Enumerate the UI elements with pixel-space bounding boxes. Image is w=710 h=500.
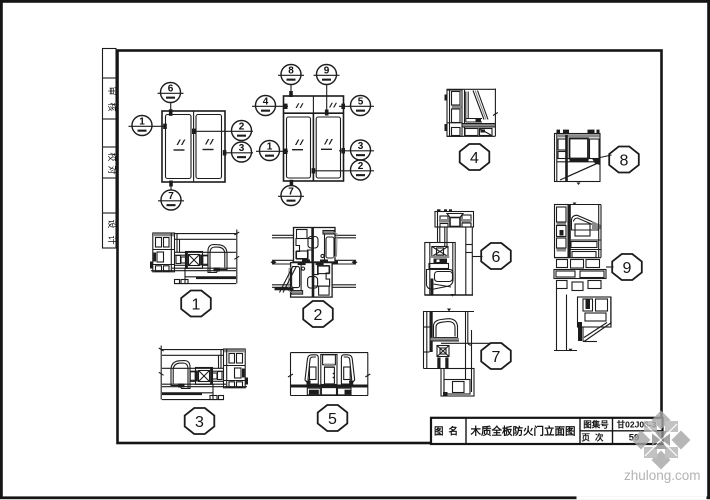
section detail 6	[425, 209, 474, 296]
door B transom glass marks	[296, 103, 304, 108]
section detail 2	[271, 228, 358, 298]
callout bubble 2 door A right	[192, 121, 253, 141]
lock body	[434, 259, 448, 264]
handle profile	[434, 319, 458, 338]
bottom cells	[465, 129, 478, 136]
door B right leaf	[316, 117, 340, 178]
door B transom mullion	[312, 96, 314, 113]
jamb block	[153, 233, 175, 272]
lower meeting stile block (rotated copy)	[289, 263, 333, 298]
section detail 3 (mirrored variant of 1)	[159, 346, 248, 400]
lower-right block	[578, 297, 612, 327]
callout bubble 1 door A left	[129, 116, 167, 136]
svg-text:2: 2	[239, 122, 245, 133]
left column	[423, 312, 425, 369]
door A left leaf	[166, 115, 192, 179]
right column	[465, 312, 467, 380]
svg-text:9: 9	[324, 66, 330, 77]
svg-text:7: 7	[168, 191, 174, 202]
jamb column	[447, 90, 462, 136]
svg-text:8: 8	[288, 66, 294, 77]
leaf top line	[175, 251, 237, 253]
dimension line	[494, 89, 496, 137]
callout bubble 1 door B left	[256, 141, 288, 161]
bolts	[437, 358, 440, 369]
door B transom sill lines	[284, 112, 344, 114]
svg-text:5: 5	[358, 97, 364, 108]
section detail 4	[445, 89, 498, 137]
section detail 1	[150, 230, 239, 284]
svg-text:4: 4	[470, 150, 479, 167]
callout bubble 7 door A bottom	[158, 181, 184, 211]
detail label octagon 6	[472, 243, 511, 269]
door A outer frame	[162, 111, 225, 182]
door elevation B	[284, 96, 344, 181]
heavy glass line	[565, 135, 568, 182]
section detail 5	[288, 353, 370, 396]
detail label octagon 5	[318, 405, 348, 431]
svg-text:核: 核	[107, 102, 118, 111]
drawing frame	[118, 51, 662, 444]
mid lock X-box	[437, 346, 449, 357]
svg-text:木质全板防火门立面图: 木质全板防火门立面图	[470, 425, 576, 438]
detail label octagon 3	[185, 408, 215, 434]
bottom band	[291, 385, 368, 388]
roof cap	[572, 215, 599, 230]
svg-text:5: 5	[328, 411, 337, 428]
lower block	[425, 243, 455, 296]
mid band	[571, 239, 601, 241]
svg-text:设: 设	[107, 219, 117, 228]
svg-text:7: 7	[288, 187, 294, 198]
head block	[435, 212, 474, 228]
svg-text:页次: 页次	[581, 433, 608, 443]
row under	[557, 260, 568, 268]
svg-text:3: 3	[195, 414, 204, 431]
legs	[437, 227, 439, 243]
door B meeting stile	[312, 113, 314, 181]
door elevation A	[162, 111, 225, 182]
left cells	[558, 139, 567, 150]
detail label octagon 9	[606, 254, 642, 280]
svg-text:图集号: 图集号	[583, 420, 609, 430]
section detail 9	[554, 203, 612, 352]
svg-text:校: 校	[107, 152, 118, 161]
door B left leaf	[287, 117, 311, 178]
leader 6	[170, 103, 172, 113]
svg-text:2: 2	[314, 307, 323, 324]
lower box	[424, 368, 475, 370]
svg-text:3: 3	[239, 143, 245, 154]
right column	[598, 205, 600, 258]
callout bubble 8 door B top	[278, 65, 304, 98]
glazing bead	[464, 90, 466, 136]
svg-text:zhulong.com: zhulong.com	[624, 468, 701, 483]
sill assembly	[185, 276, 236, 278]
left signature column	[103, 49, 119, 249]
second band rows	[554, 270, 606, 279]
heavy mullion line	[568, 205, 571, 258]
boot	[427, 270, 454, 290]
svg-text:审: 审	[107, 86, 118, 95]
left wing	[305, 355, 318, 384]
svg-text:6: 6	[168, 84, 174, 95]
svg-text:1: 1	[192, 297, 201, 314]
detail label octagon 1	[181, 291, 211, 317]
handle profile	[208, 245, 227, 273]
svg-text:9: 9	[623, 260, 632, 277]
diagonal strut lower-left	[280, 266, 294, 293]
section detail 7	[423, 309, 474, 397]
center column	[321, 355, 337, 385]
door A right leaf	[196, 115, 222, 179]
upper meeting stile block	[294, 228, 338, 263]
svg-text:4: 4	[263, 97, 269, 108]
door A glass mark left	[174, 140, 186, 151]
svg-text:计: 计	[107, 235, 118, 244]
head lines	[175, 233, 237, 235]
sloped panel	[560, 163, 599, 181]
svg-text:2: 2	[358, 161, 364, 172]
detail label octagon 2	[303, 301, 333, 327]
watermark logo	[632, 411, 691, 470]
door B glass mark right	[321, 139, 333, 150]
svg-text:8: 8	[620, 153, 629, 170]
dimension line	[236, 230, 238, 284]
callout bubble 3 door B right	[339, 140, 374, 160]
detail label octagon 7	[441, 343, 511, 369]
glass diagonal	[473, 91, 484, 120]
sill band	[463, 124, 496, 127]
right wing	[341, 355, 354, 384]
svg-text:7: 7	[492, 349, 501, 366]
feet	[307, 388, 320, 395]
lock box with X	[186, 252, 203, 269]
door B outer frame	[284, 96, 344, 181]
leaf bottom lines	[172, 267, 236, 269]
title block	[431, 418, 663, 444]
svg-text:6: 6	[492, 249, 501, 266]
callout bubble 6 door A top	[158, 83, 184, 116]
callout bubble 9 door B top	[314, 65, 340, 116]
door B glass mark left	[292, 140, 304, 151]
svg-text:1: 1	[267, 142, 273, 153]
big bead rect	[570, 139, 589, 159]
lower-left legs	[556, 289, 558, 351]
shelf	[431, 338, 460, 341]
svg-text:3: 3	[358, 141, 364, 152]
callout bubble 4 door B left	[252, 96, 288, 116]
callout bubble 5 door B right	[339, 96, 374, 116]
svg-text:对: 对	[107, 165, 118, 174]
door A glass mark right	[203, 139, 214, 150]
detail label octagon 4	[460, 144, 490, 170]
door A meeting stile	[193, 111, 195, 182]
callout bubble 3 door A right	[223, 142, 253, 162]
callout bubble 7 door B bottom	[278, 180, 304, 206]
svg-text:1: 1	[139, 117, 145, 128]
callout bubble 2 door B right	[312, 160, 374, 180]
section detail 8	[555, 130, 601, 185]
X-box	[432, 247, 448, 257]
svg-text:图名: 图名	[434, 426, 463, 438]
detail label octagon 8	[600, 147, 639, 173]
mid band	[557, 158, 600, 160]
left column	[555, 205, 569, 258]
